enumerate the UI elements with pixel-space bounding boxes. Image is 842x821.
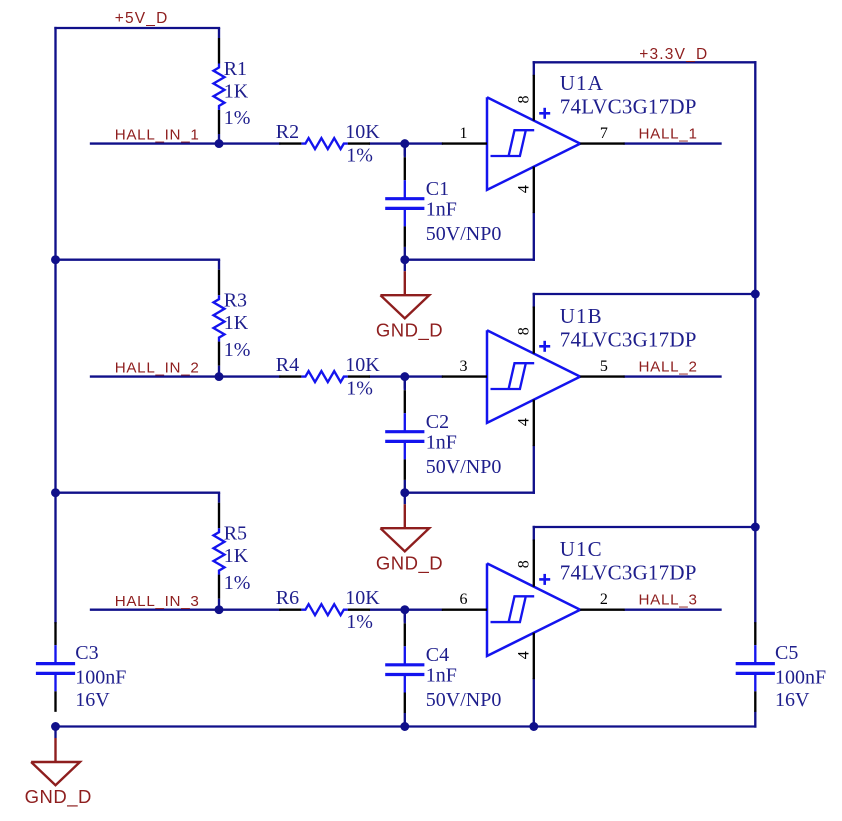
svg-text:8: 8 xyxy=(516,96,533,104)
svg-text:U1B: U1B xyxy=(560,304,603,328)
svg-text:7: 7 xyxy=(600,125,608,142)
svg-text:GND_D: GND_D xyxy=(25,786,92,808)
svg-text:2: 2 xyxy=(600,591,608,608)
svg-text:1%: 1% xyxy=(224,339,251,361)
svg-text:C1: C1 xyxy=(426,178,449,200)
svg-text:+3.3V_D: +3.3V_D xyxy=(639,46,708,63)
svg-text:HALL_3: HALL_3 xyxy=(639,592,698,609)
svg-text:74LVC3G17DP: 74LVC3G17DP xyxy=(560,561,697,585)
svg-text:1%: 1% xyxy=(346,378,373,400)
svg-text:5: 5 xyxy=(600,358,608,375)
svg-text:74LVC3G17DP: 74LVC3G17DP xyxy=(560,327,697,351)
svg-text:1K: 1K xyxy=(224,545,249,567)
svg-text:HALL_2: HALL_2 xyxy=(639,359,698,376)
svg-text:HALL_IN_1: HALL_IN_1 xyxy=(115,127,200,144)
svg-text:100nF: 100nF xyxy=(75,667,126,689)
svg-text:+5V_D: +5V_D xyxy=(115,10,169,27)
svg-text:10K: 10K xyxy=(345,121,380,143)
svg-text:R1: R1 xyxy=(224,58,247,80)
svg-text:3: 3 xyxy=(460,358,468,375)
svg-text:16V: 16V xyxy=(775,689,810,711)
svg-text:U1A: U1A xyxy=(560,71,604,95)
svg-text:1%: 1% xyxy=(224,572,251,594)
svg-text:1nF: 1nF xyxy=(426,665,457,687)
svg-text:1K: 1K xyxy=(224,80,249,102)
svg-text:GND_D: GND_D xyxy=(376,319,443,341)
svg-text:1K: 1K xyxy=(224,312,249,334)
svg-text:C3: C3 xyxy=(75,642,98,664)
svg-text:4: 4 xyxy=(516,185,533,193)
svg-text:1nF: 1nF xyxy=(426,199,457,221)
svg-text:R6: R6 xyxy=(276,587,299,609)
svg-text:R3: R3 xyxy=(224,290,247,312)
svg-text:R5: R5 xyxy=(224,523,247,545)
svg-text:U1C: U1C xyxy=(560,537,603,561)
svg-text:1: 1 xyxy=(460,125,468,142)
svg-text:C4: C4 xyxy=(426,644,449,666)
svg-text:74LVC3G17DP: 74LVC3G17DP xyxy=(560,94,697,118)
svg-text:R2: R2 xyxy=(276,121,299,143)
svg-text:C2: C2 xyxy=(426,411,449,433)
svg-text:6: 6 xyxy=(460,591,468,608)
svg-text:50V/NP0: 50V/NP0 xyxy=(426,689,502,711)
svg-text:HALL_IN_2: HALL_IN_2 xyxy=(115,360,200,377)
svg-text:16V: 16V xyxy=(75,689,110,711)
svg-text:8: 8 xyxy=(516,327,533,335)
svg-text:4: 4 xyxy=(516,418,533,426)
svg-text:50V/NP0: 50V/NP0 xyxy=(426,456,502,478)
svg-text:4: 4 xyxy=(516,651,533,659)
svg-text:1%: 1% xyxy=(346,145,373,167)
svg-text:1%: 1% xyxy=(346,611,373,633)
svg-text:C5: C5 xyxy=(775,642,798,664)
svg-text:8: 8 xyxy=(516,560,533,568)
svg-text:R4: R4 xyxy=(276,354,299,376)
svg-text:10K: 10K xyxy=(345,587,380,609)
svg-text:1%: 1% xyxy=(224,107,251,129)
svg-text:HALL_1: HALL_1 xyxy=(639,126,698,143)
svg-text:HALL_IN_3: HALL_IN_3 xyxy=(115,593,200,610)
svg-text:GND_D: GND_D xyxy=(376,552,443,574)
svg-text:10K: 10K xyxy=(345,354,380,376)
svg-text:1nF: 1nF xyxy=(426,432,457,454)
svg-text:50V/NP0: 50V/NP0 xyxy=(426,223,502,245)
svg-text:100nF: 100nF xyxy=(775,667,826,689)
